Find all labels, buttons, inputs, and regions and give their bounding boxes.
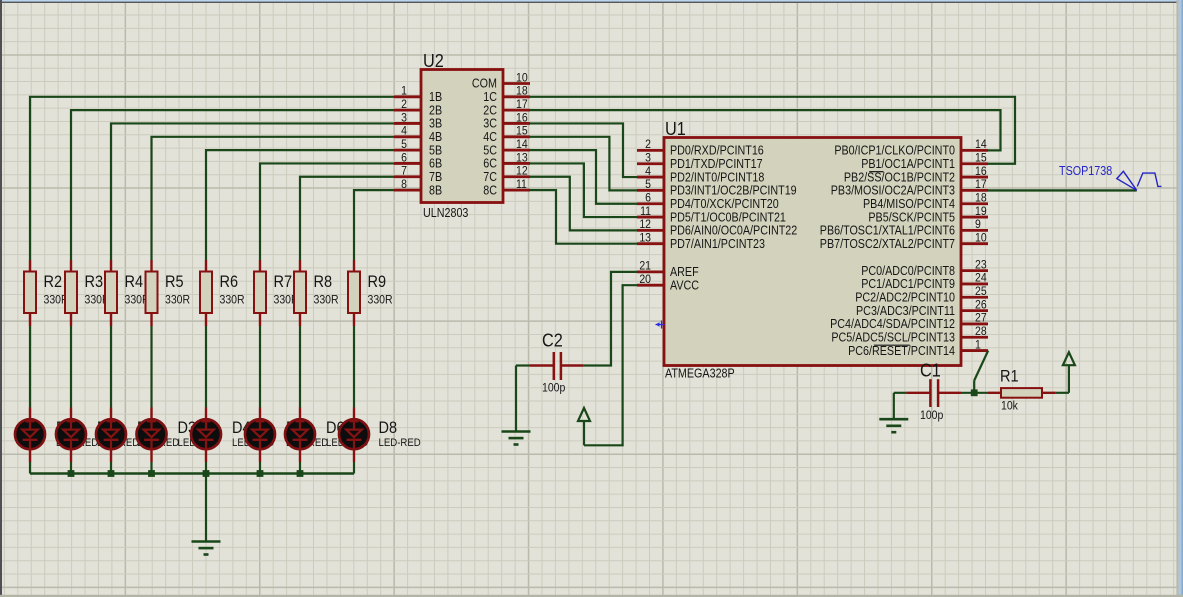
- svg-text:PD2/INT0/PCINT18: PD2/INT0/PCINT18: [670, 170, 764, 184]
- svg-text:18: 18: [516, 84, 528, 98]
- svg-text:PB3/MOSI/OC2A/PCINT3: PB3/MOSI/OC2A/PCINT3: [831, 184, 955, 198]
- svg-text:8B: 8B: [429, 183, 442, 197]
- svg-text:LED-RED: LED-RED: [379, 437, 421, 449]
- svg-text:15: 15: [975, 151, 987, 165]
- svg-text:330R: 330R: [165, 293, 190, 307]
- svg-text:PD0/RXD/PCINT16: PD0/RXD/PCINT16: [670, 144, 764, 158]
- svg-text:R5: R5: [165, 273, 184, 291]
- svg-text:R4: R4: [125, 273, 144, 291]
- svg-text:15: 15: [516, 124, 528, 138]
- svg-text:11: 11: [516, 177, 527, 191]
- svg-text:R7: R7: [274, 273, 293, 291]
- svg-text:PC0/ADC0/PCINT8: PC0/ADC0/PCINT8: [861, 264, 955, 278]
- svg-text:PD6/AIN0/OC0A/PCINT22: PD6/AIN0/OC0A/PCINT22: [670, 224, 797, 238]
- svg-text:AREF: AREF: [670, 265, 699, 279]
- svg-text:8C: 8C: [483, 183, 497, 197]
- svg-text:20: 20: [639, 272, 651, 286]
- svg-text:1C: 1C: [483, 90, 497, 104]
- svg-text:7C: 7C: [483, 170, 497, 184]
- svg-text:5C: 5C: [483, 143, 497, 157]
- svg-text:COM: COM: [472, 77, 497, 91]
- svg-text:ATMEGA328P: ATMEGA328P: [665, 367, 735, 381]
- svg-text:5: 5: [401, 137, 407, 151]
- svg-text:8: 8: [401, 177, 407, 191]
- svg-text:6B: 6B: [429, 157, 442, 171]
- svg-text:26: 26: [975, 297, 987, 311]
- svg-text:12: 12: [639, 217, 651, 231]
- svg-text:18: 18: [975, 191, 987, 205]
- svg-text:R9: R9: [368, 273, 387, 291]
- svg-text:16: 16: [516, 110, 528, 124]
- svg-text:2: 2: [401, 97, 407, 111]
- svg-text:R1: R1: [1000, 368, 1019, 386]
- svg-text:PB5/SCK/PCINT5: PB5/SCK/PCINT5: [868, 210, 955, 224]
- svg-text:3: 3: [645, 151, 651, 165]
- svg-text:13: 13: [516, 150, 528, 164]
- svg-text:C2: C2: [542, 330, 563, 351]
- svg-text:24: 24: [975, 271, 987, 285]
- svg-text:4B: 4B: [429, 130, 442, 144]
- svg-text:17: 17: [516, 97, 528, 111]
- svg-text:28: 28: [975, 324, 987, 338]
- svg-text:2C: 2C: [483, 103, 497, 117]
- svg-text:5: 5: [645, 177, 651, 191]
- svg-text:4: 4: [645, 164, 651, 178]
- svg-text:12: 12: [516, 164, 528, 178]
- svg-text:1: 1: [401, 84, 407, 98]
- svg-text:R8: R8: [314, 273, 333, 291]
- svg-text:1: 1: [975, 337, 981, 351]
- svg-text:25: 25: [975, 284, 987, 298]
- svg-text:16: 16: [975, 164, 987, 178]
- svg-text:330R: 330R: [220, 293, 245, 307]
- svg-text:PC6/RESET/PCINT14: PC6/RESET/PCINT14: [848, 344, 955, 358]
- svg-text:ULN2803: ULN2803: [423, 206, 468, 220]
- svg-text:PB2/SS/OC1B/PCINT2: PB2/SS/OC1B/PCINT2: [844, 170, 955, 184]
- svg-text:PC1/ADC1/PCINT9: PC1/ADC1/PCINT9: [861, 277, 955, 291]
- svg-text:14: 14: [975, 137, 987, 151]
- svg-text:330R: 330R: [368, 293, 393, 307]
- svg-text:PC5/ADC5/SCL/PCINT13: PC5/ADC5/SCL/PCINT13: [831, 330, 955, 344]
- svg-text:2B: 2B: [429, 103, 442, 117]
- svg-text:PB6/TOSC1/XTAL1/PCINT6: PB6/TOSC1/XTAL1/PCINT6: [820, 224, 955, 238]
- svg-text:C1: C1: [920, 360, 941, 381]
- svg-text:1B: 1B: [429, 90, 442, 104]
- svg-text:23: 23: [975, 257, 987, 271]
- svg-text:19: 19: [975, 204, 987, 218]
- svg-text:U1: U1: [665, 118, 686, 139]
- svg-text:PB4/MISO/PCINT4: PB4/MISO/PCINT4: [863, 197, 955, 211]
- svg-text:PB0/ICP1/CLKO/PCINT0: PB0/ICP1/CLKO/PCINT0: [834, 144, 955, 158]
- svg-text:7B: 7B: [429, 170, 442, 184]
- svg-text:PD4/T0/XCK/PCINT20: PD4/T0/XCK/PCINT20: [670, 197, 779, 211]
- svg-text:D8: D8: [379, 419, 398, 437]
- svg-text:PD5/T1/OC0B/PCINT21: PD5/T1/OC0B/PCINT21: [670, 210, 786, 224]
- svg-text:PD7/AIN1/PCINT23: PD7/AIN1/PCINT23: [670, 237, 765, 251]
- svg-text:7: 7: [401, 164, 407, 178]
- svg-text:PC3/ADC3/PCINT11: PC3/ADC3/PCINT11: [856, 304, 955, 318]
- svg-text:17: 17: [975, 177, 987, 191]
- svg-text:10: 10: [516, 70, 528, 84]
- svg-text:AVCC: AVCC: [670, 278, 699, 292]
- svg-text:100p: 100p: [920, 408, 943, 422]
- svg-text:TSOP1738: TSOP1738: [1059, 164, 1112, 178]
- svg-text:5B: 5B: [429, 143, 442, 157]
- svg-text:4C: 4C: [483, 130, 497, 144]
- svg-text:10k: 10k: [1001, 399, 1019, 413]
- svg-text:R6: R6: [220, 273, 239, 291]
- svg-text:PC2/ADC2/PCINT10: PC2/ADC2/PCINT10: [855, 290, 955, 304]
- svg-text:27: 27: [975, 311, 987, 325]
- svg-text:PC4/ADC4/SDA/PCINT12: PC4/ADC4/SDA/PCINT12: [830, 317, 955, 331]
- svg-text:U2: U2: [423, 50, 444, 71]
- svg-text:3B: 3B: [429, 117, 442, 131]
- svg-text:R3: R3: [85, 273, 104, 291]
- svg-text:13: 13: [639, 231, 651, 245]
- svg-text:PB1/OC1A/PCINT1: PB1/OC1A/PCINT1: [861, 157, 955, 171]
- svg-text:3: 3: [401, 110, 407, 124]
- svg-text:330R: 330R: [314, 293, 339, 307]
- svg-text:14: 14: [516, 137, 528, 151]
- svg-text:6: 6: [645, 191, 651, 205]
- svg-text:100p: 100p: [542, 381, 565, 395]
- svg-text:6C: 6C: [483, 157, 497, 171]
- svg-text:PB7/TOSC2/XTAL2/PCINT7: PB7/TOSC2/XTAL2/PCINT7: [820, 237, 955, 251]
- svg-text:10: 10: [975, 231, 987, 245]
- svg-text:4: 4: [401, 124, 407, 138]
- svg-text:21: 21: [639, 259, 651, 273]
- svg-text:3C: 3C: [483, 117, 497, 131]
- svg-text:9: 9: [975, 217, 981, 231]
- svg-text:PD3/INT1/OC2B/PCINT19: PD3/INT1/OC2B/PCINT19: [670, 184, 797, 198]
- svg-text:6: 6: [401, 150, 407, 164]
- svg-text:11: 11: [640, 204, 651, 218]
- svg-text:R2: R2: [44, 273, 63, 291]
- svg-text:2: 2: [645, 137, 651, 151]
- svg-text:PD1/TXD/PCINT17: PD1/TXD/PCINT17: [670, 157, 763, 171]
